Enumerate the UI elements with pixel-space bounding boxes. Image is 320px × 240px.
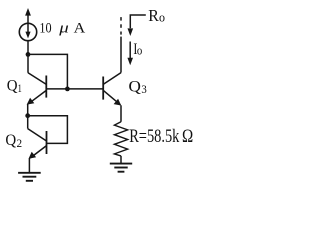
current source I1 (circle) bbox=[19, 23, 36, 40]
wire: current source to node A bbox=[27, 41, 29, 73]
svg-text:A: A bbox=[74, 20, 86, 36]
wire: Q1 collector-base feedback loop bbox=[28, 54, 67, 89]
svg-text:R: R bbox=[148, 6, 159, 25]
svg-text:Ω: Ω bbox=[182, 126, 193, 147]
label 10 uA bbox=[39, 20, 85, 36]
node B junction dot (base rail) bbox=[65, 87, 70, 92]
label Ro bbox=[148, 6, 165, 25]
svg-text:Q: Q bbox=[5, 132, 16, 149]
label R=58.5kOhm bbox=[129, 126, 193, 147]
dashed wire to Ro node bbox=[120, 17, 122, 34]
wire: Q3 emitter to resistor bbox=[120, 105, 122, 122]
svg-text:10: 10 bbox=[39, 20, 51, 36]
label Q2 bbox=[5, 132, 22, 150]
svg-text:Q: Q bbox=[7, 78, 18, 95]
transistor Q2 emitter diagonal with arrow bbox=[29, 146, 47, 159]
label Io bbox=[133, 41, 142, 58]
Io arrow bbox=[127, 42, 133, 66]
svg-text:2: 2 bbox=[17, 138, 23, 150]
transistor Q1 base bar bbox=[45, 76, 47, 98]
wire: base rail Q1 to Q3 bbox=[46, 88, 103, 90]
transistor Q1 emitter diagonal with arrow bbox=[27, 90, 47, 104]
transistor Q3 emitter diagonal with arrow bbox=[103, 90, 121, 105]
svg-text:Q: Q bbox=[129, 78, 141, 95]
label Q3 bbox=[129, 78, 148, 96]
node A junction dot bbox=[26, 52, 31, 57]
svg-text:3: 3 bbox=[141, 84, 147, 96]
Ro arrow bbox=[128, 15, 146, 36]
ground (left) bbox=[18, 173, 41, 181]
wire: resistor to ground bbox=[120, 156, 122, 164]
wire: Q3 collector up to dashed output node bbox=[120, 37, 122, 73]
label Q1 bbox=[7, 78, 22, 96]
wire: Q1 emitter to node C bbox=[27, 104, 29, 129]
svg-text:o: o bbox=[137, 43, 142, 58]
wire: Q2 collector-base feedback loop bbox=[28, 116, 68, 144]
node C junction dot bbox=[25, 113, 30, 118]
supply arrow above current source bbox=[25, 8, 31, 23]
current source internal arrow (pointing down) bbox=[25, 23, 30, 38]
wire: Q2 emitter to ground bbox=[28, 158, 30, 172]
svg-text:1: 1 bbox=[18, 83, 22, 95]
transistor Q1 collector diagonal bbox=[28, 73, 46, 85]
svg-text:μ: μ bbox=[58, 20, 69, 36]
transistor Q2 base bar bbox=[46, 131, 48, 154]
svg-text:o: o bbox=[159, 10, 165, 25]
transistor Q3 base bar bbox=[102, 77, 104, 100]
ground (right) bbox=[110, 164, 132, 172]
transistor Q2 collector diagonal bbox=[28, 129, 47, 141]
resistor R zigzag bbox=[114, 122, 127, 156]
transistor Q3 collector diagonal bbox=[103, 73, 121, 85]
svg-text:R=58.5k: R=58.5k bbox=[129, 127, 180, 147]
